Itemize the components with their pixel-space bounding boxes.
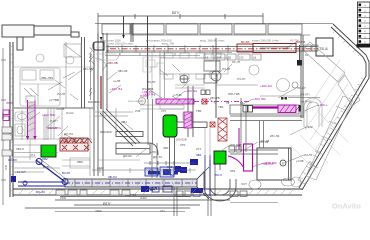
cells right of duct end: [304, 45, 318, 51]
svg-text:ЧВ00: ЧВ00: [95, 209, 102, 213]
svg-text:возд. 160х90 сталь: возд. 160х90 сталь: [200, 39, 225, 43]
blue ducts bottom: [11, 155, 210, 196]
svg-text:2Ю-Л2: 2Ю-Л2: [259, 140, 269, 144]
svg-text:ЗЧ-02: ЗЧ-02: [66, 111, 74, 115]
blue diagonal duct: [36, 160, 64, 181]
svg-text:ВЗ: ВЗ: [228, 56, 232, 60]
svg-text:200-02В: 200-02В: [176, 138, 187, 142]
svg-text:ЗМ1: ЗМ1: [121, 120, 127, 124]
blue bits left: [11, 176, 16, 182]
svg-text:ЗВ1: ЗВ1: [196, 153, 202, 157]
svg-text:ЛЧ-Л7: ЛЧ-Л7: [147, 80, 156, 84]
top-left wall band: [2, 25, 79, 50]
magenta bits left edge: [3, 110, 9, 121]
svg-text:л+ЛЗ8: л+ЛЗ8: [56, 107, 65, 111]
svg-text:ДО-02: ДО-02: [123, 154, 132, 158]
svg-text:л+ЛЗ: л+ЛЗ: [113, 79, 120, 83]
wardrobe bedroom: [14, 44, 93, 67]
svg-text:ТБ-8: ТБ-8: [319, 46, 328, 51]
svg-text:ВЗ-Л: ВЗ-Л: [215, 173, 222, 177]
washbasin bathroom: [15, 112, 29, 136]
svg-text:+400 ЛЯч: +400 ЛЯч: [42, 113, 56, 117]
svg-text:2Ч-Л7: 2Ч-Л7: [57, 92, 66, 96]
right diagonal walls: [299, 24, 369, 190]
vertical blue duct right of trunk: [204, 155, 206, 196]
svg-text:ЛВ2: ЛВ2: [42, 157, 48, 161]
svg-text:л+ЛЗ: л+ЛЗ: [146, 87, 153, 91]
left dimension line: [1, 48, 6, 205]
top wall with windows: [95, 24, 333, 36]
svg-text:ЗВ-ЛЧ: ЗВ-ЛЧ: [108, 175, 117, 179]
svg-text:В2: В2: [170, 173, 174, 177]
svg-text:ЗЮ-ЛВ: ЗЮ-ЛВ: [108, 61, 118, 65]
grey text row under windows: [100, 39, 279, 43]
svg-text:ЧВ00: ЧВ00: [1, 113, 5, 120]
duct U-bend bottom center: [197, 171, 236, 201]
kitchen counters along diagonal: [291, 42, 360, 187]
svg-text:зона 150х150 сталь: зона 150х150 сталь: [108, 42, 134, 46]
bottom dimension texts: [1, 113, 165, 213]
green equipment boxes: [41, 145, 56, 157]
svg-text:2Т5: 2Т5: [161, 109, 166, 113]
svg-text:Л51: Л51: [230, 169, 236, 173]
svg-text:ЛЮ-Т2В: ЛЮ-Т2В: [228, 92, 240, 96]
svg-text:2Ч5: 2Ч5: [135, 109, 141, 113]
transition piece: [197, 152, 220, 199]
svg-text:ЛЧ-ЛТг: ЛЧ-ЛТг: [300, 93, 310, 97]
red vertical duct: [100, 76, 102, 109]
left thin blue run: [18, 181, 65, 183]
svg-text:у-Г08: у-Г08: [296, 159, 304, 163]
svg-text:ЧТ2: ЧТ2: [30, 153, 36, 157]
svg-text:ЛУ-Л7: ЛУ-Л7: [297, 86, 306, 90]
magenta arrows on risers: [26, 136, 37, 140]
svg-text:ЬЗ: ЬЗ: [253, 56, 257, 60]
svg-text:ВГУ: ВГУ: [103, 201, 111, 206]
svg-text:+400 ЛЧг: +400 ЛЧг: [143, 93, 156, 97]
extra labels center: [146, 80, 202, 154]
left column detail lines: [14, 42, 66, 168]
wall hatch left & bottom: [10, 45, 294, 195]
svg-text:л+ЛЧ-В: л+ЛЧ-В: [301, 100, 311, 104]
magenta labels: [6, 87, 328, 165]
sofa corridor: [89, 47, 120, 61]
svg-text:150: 150: [239, 56, 244, 60]
shaft box top right: [316, 38, 333, 56]
svg-text:+400 АЧг: +400 АЧг: [260, 84, 272, 88]
svg-text:возд.канал: возд.канал: [128, 100, 142, 103]
bottom dimension lines: [25, 197, 230, 209]
svg-text:канал 200х100 L=4м: канал 200х100 L=4м: [252, 39, 279, 43]
blue unit cluster: [190, 159, 198, 165]
svg-text:2Т0: 2Т0: [180, 143, 186, 147]
dim extension x299: [299, 45, 301, 61]
svg-text:ЗЮ-Л2: ЗЮ-Л2: [118, 69, 128, 73]
circle near right wall: [292, 82, 298, 88]
svg-text:+400 АЧг: +400 АЧг: [185, 89, 197, 93]
magenta ducts: [28, 90, 321, 171]
misc thin geometry center: [62, 46, 210, 195]
svg-text:78: 78: [226, 101, 230, 105]
svg-text:ДО-Т2: ДО-Т2: [153, 155, 162, 159]
svg-text:2Ч-Л7: 2Ч-Л7: [304, 153, 313, 157]
svg-text:ЮЛ: ЮЛ: [217, 56, 222, 60]
magenta hatched box center: [156, 99, 194, 104]
second duct line below red: [105, 53, 232, 56]
magenta small box center duct: [184, 112, 192, 128]
svg-text:ЗЧ1: ЗЧ1: [167, 165, 173, 169]
magenta line in big duct right: [230, 105, 299, 114]
svg-text:у-ГТВВ: у-ГТВВ: [49, 98, 59, 102]
svg-text:л+Л02: л+Л02: [48, 126, 57, 130]
red labels: [62, 40, 306, 143]
bottom wall cells: [56, 190, 130, 195]
svg-text:ЛУ-ТМ: ЛУ-ТМ: [290, 39, 299, 43]
svg-text:ЛВ1-Л2Ч: ЛВ1-Л2Ч: [41, 76, 53, 80]
extra dim line bottom: [55, 211, 185, 213]
svg-text:ЬЗ: ЬЗ: [205, 56, 209, 60]
kitchen tiles bottom right: [290, 60, 351, 171]
interior wall x301: [301, 35, 303, 118]
red supply duct top: [106, 44, 318, 53]
svg-text:ЛВ2-8: ЛВ2-8: [16, 147, 24, 151]
svg-text:2400: 2400: [60, 196, 67, 200]
left riser shafts column: [14, 96, 92, 176]
kitchen island steps: [143, 57, 165, 72]
extra verticals risers: [30, 108, 62, 160]
door arc bedroom: [95, 58, 107, 70]
svg-text:600x300: 600x300: [100, 130, 112, 134]
svg-text:В1-ВЗ: В1-ВЗ: [241, 40, 250, 44]
svg-text:В2-05: В2-05: [62, 171, 70, 175]
svg-text:+ЛЗ: +ЛЗ: [150, 150, 156, 154]
svg-text:ЛГ-Л7: ЛГ-Л7: [232, 60, 241, 64]
svg-text:+400 о-: +400 о-: [318, 103, 328, 107]
dark vertical dim ext x147: [147, 16, 149, 99]
right vertical table: [357, 2, 370, 48]
main trunk duct: [65, 179, 197, 187]
vertical magenta left: [27, 100, 29, 137]
svg-text:ЬЧВ: ЬЧВ: [43, 165, 49, 169]
extra top texts: [108, 39, 299, 46]
extra left column lines: [14, 108, 133, 172]
dim line above trunk: [92, 168, 196, 173]
svg-text:ТВ1: ТВ1: [218, 105, 224, 109]
svg-text:ЬЧ: ЬЧ: [305, 53, 308, 57]
furniture: bed: [20, 48, 94, 106]
svg-text:2400: 2400: [97, 166, 104, 170]
UV boxes left edge: [2, 127, 12, 156]
svg-text:ЗЧ-Л7: ЗЧ-Л7: [50, 119, 58, 123]
svg-text:ЧСТ: ЧСТ: [241, 182, 247, 186]
blue labels: [8, 153, 222, 194]
svg-text:ЛЧ-ЛТ: ЛЧ-ЛТ: [222, 67, 231, 71]
svg-text:OnAvito: OnAvito: [332, 202, 361, 211]
svg-text:ЛЧ-Л7: ЛЧ-Л7: [237, 77, 246, 81]
svg-text:200-028: 200-028: [230, 143, 241, 147]
svg-text:150 ЬВ1: 150 ЬВ1: [142, 188, 154, 192]
wall hatch ticks along diagonals: [299, 30, 365, 179]
svg-text:ЗЧ00: ЗЧ00: [140, 196, 147, 200]
scattered labels with leaders: [41, 60, 313, 197]
svg-text:ЗЧ0: ЗЧ0: [4, 165, 8, 170]
black duct center horizontal: [100, 86, 207, 170]
svg-text:600x300: 600x300: [88, 100, 100, 104]
svg-text:ЗЗ0: ЗЗ0: [163, 146, 169, 150]
interior partitions: [14, 23, 216, 118]
svg-text:ТВ1: ТВ1: [196, 109, 202, 113]
svg-text:ВГУ: ВГУ: [172, 10, 180, 15]
svg-text:ЗЮ-ТВ: ЗЮ-ТВ: [210, 96, 220, 100]
svg-text:2Ю-Л2: 2Ю-Л2: [270, 134, 280, 138]
furniture: dining table + chairs: [160, 53, 290, 92]
long verticals to bottom edge: [174, 185, 211, 216]
svg-text:у-302: у-302: [305, 125, 313, 129]
black arrow marker: [100, 37, 103, 41]
svg-text:ЬЗ-ВЛ: ЬЗ-ВЛ: [8, 158, 17, 162]
duct to magenta box: [160, 51, 165, 99]
svg-text:2Ю-ЛВ: 2Ю-ЛВ: [83, 67, 93, 71]
svg-text:ДУ-ЛЧ: ДУ-ЛЧ: [64, 132, 73, 136]
svg-text:+400 ЛЧг: +400 ЛЧг: [110, 87, 123, 91]
svg-text:2Т1: 2Т1: [160, 209, 165, 213]
diagonal leaders bathroom: [30, 112, 68, 136]
svg-text:ЛВ0: ЛВ0: [77, 160, 83, 164]
svg-text:+400 ЛЯг: +400 ЛЯг: [253, 97, 266, 101]
left wall: [10, 42, 13, 197]
leader lines: [48, 42, 318, 167]
extra ducts center-right: [152, 61, 302, 178]
svg-text:возд. 200: возд. 200: [162, 42, 174, 46]
red x-hatch column center: [202, 99, 227, 141]
small boxes row under duct: [204, 54, 261, 60]
top dimension line: [98, 13, 263, 42]
svg-text:+400 ЛЯг: +400 ЛЯг: [264, 161, 277, 165]
black vertical duct left-center: [94, 33, 107, 176]
detail room box bottom right: [257, 134, 291, 180]
red x-hatch equipment left: [60, 138, 92, 151]
small boxes near magenta duct: [176, 146, 247, 197]
toilet ovals: [249, 178, 295, 189]
magenta vertical bottom center: [244, 144, 253, 171]
svg-text:2Т1: 2Т1: [196, 147, 202, 151]
bottom wall: [13, 189, 302, 195]
